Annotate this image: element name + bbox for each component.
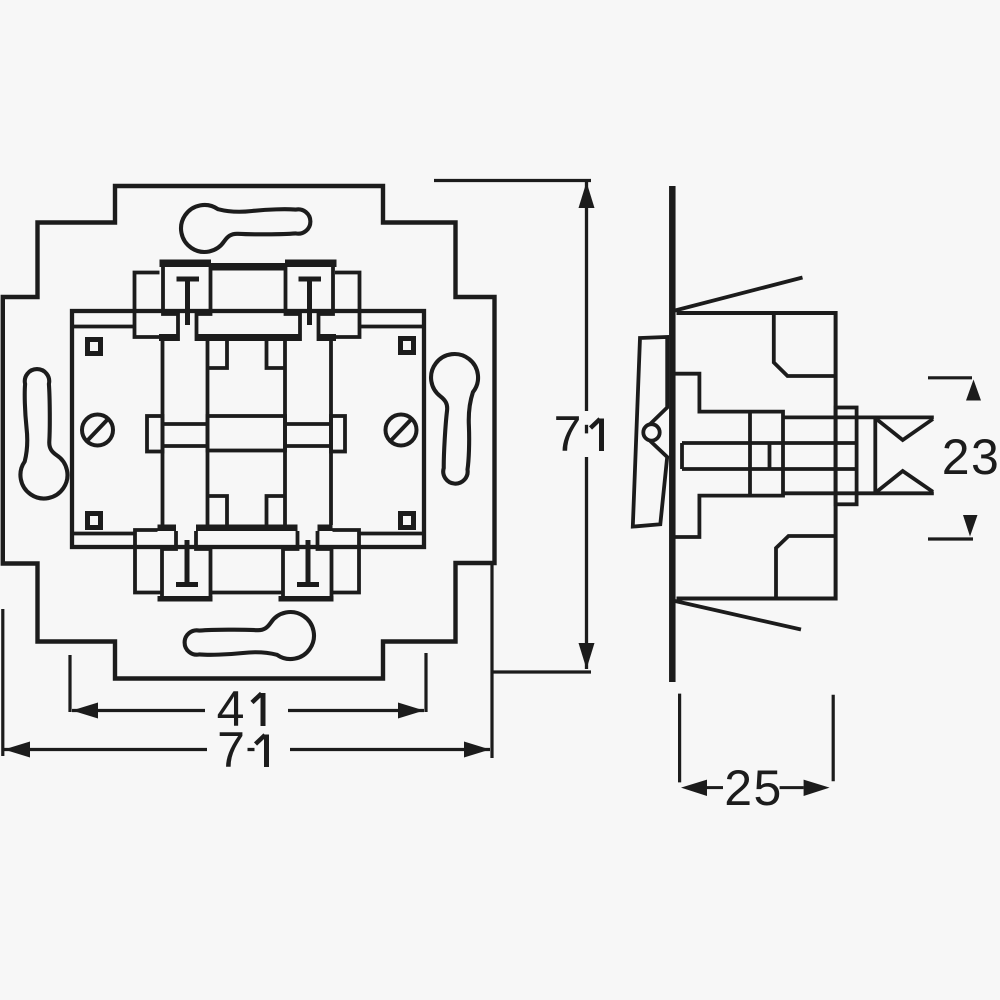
side view: support ring plate [669,186,676,682]
side view: expanding claw lever [633,337,667,527]
inner mounting plate [72,311,424,547]
dim: 25 extension lines [680,694,834,783]
front view: outer support frame contour [3,186,495,679]
dim: 25 arrows [681,780,707,796]
top-right T mark [299,279,322,325]
top terminal bars (thick) [160,260,212,268]
svg-text:23: 23 [942,429,1000,485]
svg-text:7: 7 [217,722,245,778]
screw right [386,415,417,446]
bottom housing top bar (thick, with channel gaps) [158,525,177,532]
side view: shaft outer lines [783,417,934,493]
corner hole bottom-left [88,514,101,528]
side view: top-right inner notch [774,315,836,377]
bottom-left claw terminal [162,531,211,597]
keyhole slot bottom [185,612,314,659]
upper pockets [208,341,286,368]
crossbar right arm [285,424,331,446]
plate rim line top [72,325,424,329]
rocker crossbar center [208,416,286,451]
side view: bottom-right inner notch [776,536,836,597]
bottom-right T mark [297,540,319,585]
plate rim line bottom [72,532,424,536]
corner hole top-right [401,339,414,353]
dim: 23 top tick [928,376,972,379]
switch mech: top outer housing [135,273,360,338]
screw left [82,415,113,446]
top-left claw terminal [163,266,211,341]
dim: vertical 71 line [585,182,588,669]
side view: plunger housing stepped outline [676,374,784,537]
side view: tip base [873,417,877,493]
crossbar left arm [163,424,208,446]
dim: vertical 71 extension bottom [492,670,591,673]
top housing bottom bar (thick, with channel gaps) [159,334,178,341]
side view: body outline [677,313,836,599]
dim: horizontal 41 line [72,709,424,712]
side view: collar [836,408,857,505]
bottom terminal bars (thick) [158,596,213,602]
switch mech: bottom outer housing [135,530,359,593]
side rails [163,341,332,525]
keyhole slot top [181,205,310,252]
svg-text:7: 7 [554,406,582,462]
dim: horizontal 41 extension lines [70,653,426,712]
side view: bottom claw arm [675,601,801,630]
dim: horizontal 71 extension lines [3,563,492,758]
crossbar right tab [331,416,345,452]
bottom-left T mark [176,540,198,585]
top-left T mark [177,279,200,325]
side view: claw pivot [643,424,659,440]
lower pockets [208,496,286,525]
bottom-right claw terminal [283,531,332,597]
top-right claw terminal [286,266,334,341]
keyhole slot left [20,369,67,498]
side view: tip arrow bottom [877,471,933,492]
dim: vertical 71 extension top [434,179,591,182]
dim: horizontal 71 line [4,748,490,751]
dim: 23 bottom tick [928,537,973,540]
corner hole top-left [88,340,101,354]
side view: housing divider [748,412,752,496]
crossbar left tab [147,416,163,452]
corner hole bottom-right [401,514,414,528]
keyhole slot right [424,353,479,485]
side view: tip arrow top [877,419,933,440]
side view: top claw arm [675,278,803,311]
side view: shaft inner [682,443,857,469]
svg-text:25: 25 [724,760,783,816]
